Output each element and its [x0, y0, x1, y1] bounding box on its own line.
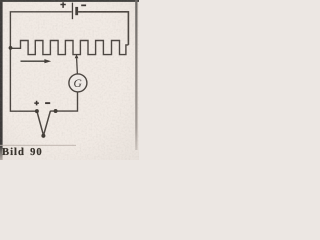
frame right border	[135, 0, 137, 150]
wire slider to galvanometer	[76, 58, 79, 74]
wire right: from battery to right vertical down to slide wire end	[78, 12, 128, 45]
slide-wire resistor (meander)	[10, 41, 128, 55]
thermocouple left terminal dot	[35, 109, 39, 113]
wire left+top loop: top wire, left vertical, bottom wire to thermocouple	[10, 12, 71, 111]
node junction dot	[9, 46, 13, 50]
faint bottom frame remnant	[0, 145, 76, 146]
wire galvanometer to thermocouple right terminal	[50, 92, 77, 111]
direction arrow (current)	[21, 60, 46, 62]
thermocouple V element	[37, 111, 51, 135]
thermocouple junction dot	[41, 134, 45, 138]
thermocouple right terminal dot	[54, 109, 58, 113]
battery label -	[81, 5, 86, 7]
frame top border	[0, 0, 139, 2]
battery B1 short thick plate (-)	[75, 7, 78, 15]
caption Bild 90	[2, 147, 43, 158]
galvanometer G circle	[69, 74, 87, 92]
slider contact arrow	[75, 54, 79, 58]
frame left border	[0, 0, 3, 160]
thermocouple label +	[34, 101, 39, 106]
battery label +	[60, 2, 65, 8]
battery B1 long plate (+)	[72, 3, 73, 20]
thermocouple label -	[45, 102, 50, 104]
